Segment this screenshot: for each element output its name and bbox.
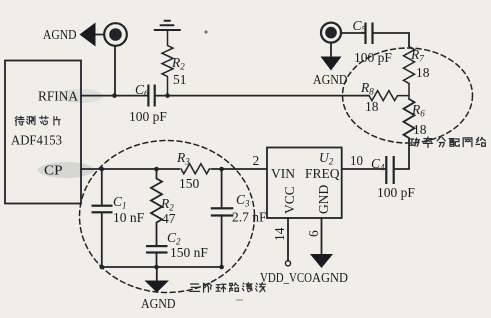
VDD_VCO open terminal circle — [285, 261, 290, 266]
svg-text:VCC: VCC — [282, 186, 297, 214]
loop filter: junction dot C1 — [100, 167, 105, 172]
resistor R3 (series in CP net) — [180, 163, 211, 175]
svg-text:AGND: AGND — [313, 72, 348, 87]
wire C5 to divider bus — [374, 33, 409, 47]
svg-text:FREQ: FREQ — [305, 166, 340, 181]
grey highlight smudge behind CP pin — [38, 162, 94, 178]
junction dot rail right — [219, 265, 224, 270]
connector J1 (top-left coax) — [95, 23, 127, 46]
wire divider bus to C4 — [395, 168, 409, 170]
wire C2 to bottom rail — [156, 254, 158, 267]
svg-text:ADF4153: ADF4153 — [11, 133, 62, 148]
svg-text:2: 2 — [253, 153, 260, 168]
junction dot at J1/RFINA — [112, 93, 117, 98]
capacitor C4 (series) — [385, 156, 395, 184]
earth ground above R2 — [155, 21, 181, 30]
junction dot RFINA / R2 — [165, 93, 170, 98]
wire RFINA net (chip to power divider) — [81, 95, 369, 97]
chip text 待测芯片 — [15, 116, 60, 125]
label 功率分配网络 (power divider network) — [410, 137, 486, 147]
capacitor C5 (series) — [364, 23, 373, 45]
svg-text:AGND: AGND — [312, 270, 348, 285]
AGND triangle (U2 pin 6) — [310, 254, 333, 268]
wire U2 FREQ pin 10 to C4 — [342, 168, 386, 170]
C1 branch wire — [101, 169, 103, 206]
svg-text:100 pF: 100 pF — [377, 185, 415, 200]
svg-text:14: 14 — [272, 227, 287, 241]
dashed ellipse loop filter — [80, 141, 255, 293]
connector J2 (top-right coax) — [321, 23, 341, 43]
U2 box — [267, 148, 342, 219]
faint speck below filter label — [236, 299, 243, 301]
junction dot rail left — [100, 265, 105, 270]
svg-text:51: 51 — [173, 72, 187, 87]
pin 6 wire (GND) — [321, 218, 323, 254]
grey highlight smudge behind RFINA pin — [57, 89, 103, 103]
svg-text:AGND: AGND — [43, 27, 77, 42]
resistor R2 47 branch — [151, 169, 162, 245]
stub to AGND triangle — [156, 267, 158, 281]
paper speck near ground symbol — [204, 30, 207, 33]
AGND arrow (top-left, points left) — [80, 23, 96, 47]
svg-text:GND: GND — [316, 185, 331, 214]
svg-text:18: 18 — [416, 65, 430, 80]
svg-text:150: 150 — [179, 176, 200, 191]
svg-text:6: 6 — [306, 230, 321, 237]
junction dot rail middle — [154, 265, 159, 270]
CJK hand-drawn glyph labels — [15, 116, 485, 292]
svg-text:2.7 nF: 2.7 nF — [232, 210, 267, 225]
svg-text:CP: CP — [44, 163, 63, 178]
wire J2 to C5 — [341, 32, 364, 34]
resistor R6 — [404, 99, 415, 169]
AGND triangle (filter) — [145, 281, 170, 293]
bottom ground rail of filter — [102, 266, 222, 268]
svg-text:18: 18 — [413, 122, 427, 137]
C3 branch wire — [221, 169, 223, 208]
AGND triangle (below J2) — [321, 57, 342, 71]
svg-text:VIN: VIN — [271, 166, 295, 181]
svg-text:100 pF: 100 pF — [354, 50, 392, 65]
svg-text:47: 47 — [162, 211, 176, 226]
capacitor C6 (series in RFINA net) — [147, 85, 156, 107]
wire connector J1 drop to RFINA net — [114, 47, 116, 96]
dashed ellipse power divider — [343, 48, 473, 143]
svg-text:AGND: AGND — [141, 296, 176, 311]
chip U1 待测芯片 ADF4153 box — [5, 61, 81, 204]
label 三阶环路滤波 (3rd order loop filter) — [190, 283, 266, 292]
stub J2 to AGND symbol — [330, 43, 332, 56]
junction dot R2/C2 branch — [154, 167, 159, 172]
capacitor C3 — [211, 207, 234, 216]
svg-text:VDD_VCO: VDD_VCO — [260, 270, 312, 285]
pin 14 wire (VCC) — [287, 218, 289, 261]
resistor R7 — [404, 47, 415, 100]
svg-text:18: 18 — [365, 99, 379, 114]
junction dot C3 branch — [219, 167, 224, 172]
resistor R8 (series in RFINA net) — [369, 91, 409, 101]
capacitor C2 — [146, 245, 168, 254]
svg-text:10: 10 — [350, 153, 363, 168]
designator labels italic with subscripts — [113, 18, 425, 247]
capacitor C1 — [92, 205, 113, 214]
svg-text:150 nF: 150 nF — [170, 245, 208, 260]
svg-text:10 nF: 10 nF — [113, 210, 145, 225]
resistor R2 51 (shunt to earth gnd) — [162, 30, 173, 96]
svg-text:RFINA: RFINA — [38, 89, 78, 104]
wire CP net (chip to U2 VIN) — [81, 168, 267, 170]
svg-text:100 pF: 100 pF — [129, 109, 167, 124]
